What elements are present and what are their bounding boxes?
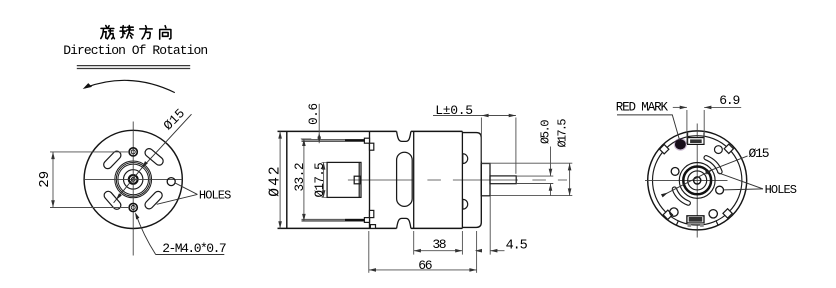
- crimp tick right: [716, 221, 718, 225]
- vent slot top-right: [143, 147, 164, 167]
- svg-text:4.5: 4.5: [506, 239, 528, 254]
- rear shaft: [490, 176, 516, 184]
- svg-text:2-M4.0*0.7: 2-M4.0*0.7: [162, 241, 226, 256]
- gearbox bottom notch: [397, 218, 411, 228]
- rear center line vertical: [696, 124, 698, 238]
- small plain hole right: [167, 178, 175, 186]
- joint bottom step: [370, 225, 375, 229]
- arc slot upper-right: [706, 158, 720, 172]
- small hole right: [716, 186, 724, 194]
- dimension 33.2: [293, 139, 311, 221]
- small hole upper-right: [715, 146, 723, 154]
- svg-text:Ø42: Ø42: [268, 164, 284, 196]
- svg-text:Direction Of Rotation: Direction Of Rotation: [63, 43, 207, 58]
- joint vertical: [369, 131, 371, 228]
- can left face: [286, 131, 288, 228]
- red mark blob: [674, 138, 687, 151]
- joint clip top-right: [370, 143, 374, 150]
- dimension d17.5 left: [313, 162, 327, 197]
- endcap outline: [462, 133, 481, 228]
- center circle outer: [679, 163, 715, 199]
- joint clip bottom-right: [370, 210, 374, 217]
- svg-text:Ø17.5: Ø17.5: [556, 119, 570, 148]
- svg-text:RED MARK: RED MARK: [616, 100, 669, 114]
- svg-text:38: 38: [432, 237, 445, 252]
- arc slot lower-left: [674, 189, 688, 203]
- dia15 leader (rear view): [667, 156, 748, 194]
- diamond tab top-left: [660, 145, 669, 154]
- svg-text:0.6: 0.6: [307, 103, 321, 125]
- left view middle circle: [124, 170, 143, 189]
- HOLES leader to bottom-right slot: [157, 194, 198, 204]
- svg-text:L±0.5: L±0.5: [435, 103, 473, 118]
- vent slot bottom-left: [102, 190, 122, 211]
- bottom terminal gray legs: [688, 223, 704, 227]
- motor shaft stub square: [354, 176, 360, 184]
- HOLES leader lower (rear): [724, 189, 763, 190]
- svg-text:Ø15: Ø15: [749, 146, 769, 161]
- small hole upper-left: [671, 168, 679, 176]
- flat edge lines bottom: [302, 218, 365, 220]
- svg-text:29: 29: [37, 171, 53, 188]
- small circle lower-right: [709, 210, 717, 218]
- HOLES leader upper (rear): [717, 172, 763, 189]
- flat edge lines top: [302, 139, 365, 141]
- can bottom edge: [278, 227, 463, 229]
- M4 mounting hole bottom: [129, 203, 137, 211]
- shaft center circle: [694, 177, 701, 184]
- RED MARK leader: [617, 115, 680, 140]
- crimp tick left: [676, 221, 678, 225]
- svg-text:6.9: 6.9: [719, 93, 739, 108]
- joint clip bottom-left: [364, 218, 369, 223]
- dimension 29 extension lines: [50, 151, 129, 153]
- can end vertical: [461, 131, 463, 228]
- gearbox/can divider vertical: [413, 131, 415, 228]
- dimension 4.5: [475, 196, 528, 273]
- dimension d17.5 right: [556, 119, 572, 196]
- small circle lower-left: [670, 208, 678, 216]
- diamond tab bottom-right: [723, 209, 732, 218]
- M4 mounting hole top: [129, 148, 137, 156]
- dimension 66: [369, 231, 477, 273]
- d15 thick circle: [683, 167, 711, 195]
- dimension d42: [268, 131, 284, 228]
- char 旋: [101, 26, 115, 39]
- d17.5 extension stubs: [322, 161, 328, 163]
- D vent top at can end: [463, 154, 468, 164]
- extension lines right of shaft: [482, 162, 573, 164]
- bottom terminal box: [687, 216, 704, 223]
- top terminal box: [688, 138, 704, 145]
- rotation direction arrow (curved): [85, 80, 175, 92]
- gearbox top notch: [397, 131, 411, 141]
- svg-text:33.2: 33.2: [293, 163, 307, 192]
- diamond tab top-right: [724, 144, 733, 153]
- dimension 0.6: [307, 103, 321, 143]
- inner circle: [688, 171, 707, 190]
- D vent bottom at can end: [463, 199, 468, 209]
- left view boss ring circles: [115, 161, 152, 198]
- char 向: [160, 26, 171, 39]
- 2-M4.0*0.7 underline: [156, 254, 225, 256]
- diamond tab bottom-left: [663, 210, 672, 219]
- left view outer circle: [84, 130, 182, 228]
- dimension L+-0.5: [433, 103, 516, 174]
- vent slot top-left: [102, 149, 123, 170]
- title double rule: [77, 65, 190, 67]
- title chinese 旋转方向 (stroke-drawn glyphs): [101, 26, 171, 40]
- svg-text:HOLES: HOLES: [765, 183, 797, 197]
- char 转: [120, 26, 133, 39]
- left view center line vertical: [132, 122, 134, 256]
- dimension 29 line and arrows: [52, 152, 54, 208]
- dimension 6.9: [673, 93, 741, 144]
- left view center line horizontal: [84, 178, 183, 180]
- svg-text:66: 66: [418, 258, 432, 273]
- rear outer circle: [648, 131, 747, 230]
- vent slot bottom-right: [143, 190, 164, 211]
- HOLES leader to plain hole: [175, 183, 198, 195]
- rear rim circle: [653, 136, 742, 225]
- joint clip top-left: [364, 138, 369, 143]
- rear bushing: [481, 164, 490, 196]
- dimension d5.0: [539, 120, 553, 196]
- internal boss rectangle (d17.5): [327, 162, 361, 197]
- svg-text:Ø5.0: Ø5.0: [539, 120, 553, 144]
- gearbox oval slot: [397, 152, 413, 206]
- dia15 leader line (left view): [114, 114, 192, 203]
- svg-text:HOLES: HOLES: [199, 188, 231, 202]
- svg-text:Ø17.5: Ø17.5: [313, 163, 327, 198]
- rear center line horizontal: [645, 179, 728, 181]
- side view center line: [348, 179, 567, 181]
- char 方: [140, 26, 152, 39]
- 2-M4.0*0.7 leader curve and arrow: [136, 214, 156, 255]
- can top edge: [278, 130, 463, 132]
- left view shaft hub circles: [129, 175, 138, 184]
- dimension 38: [414, 231, 463, 255]
